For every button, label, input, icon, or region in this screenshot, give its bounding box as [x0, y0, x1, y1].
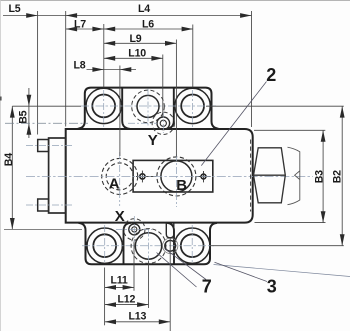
bottom cavity vertical centerline: [148, 230, 150, 262]
indicator circle right: [201, 174, 206, 179]
svg-text:L12: L12: [118, 293, 136, 305]
dimension B2 line: [341, 106, 343, 246]
extension line L4 right: [251, 11, 253, 127]
extension line port B center: [175, 40, 177, 157]
arrow bowtie L6 left: [104, 27, 115, 32]
top right boss inner edge: [166, 88, 174, 129]
port B solid circle: [161, 161, 192, 192]
port A dashed circle outer: [102, 158, 138, 194]
extension line port X: [133, 242, 135, 291]
left plug bottom stub: [38, 199, 49, 211]
port B vertical centerline: [175, 154, 177, 207]
arrow bowtie L7 right: [92, 27, 103, 32]
svg-text:L13: L13: [129, 311, 147, 323]
svg-text:B5: B5: [18, 110, 30, 123]
arrow L8 right outside: [120, 67, 131, 72]
port X horizontal centerline left: [4, 228, 82, 230]
callout 7 leader a: [165, 249, 207, 280]
port X small hole inner: [132, 227, 137, 232]
port Y cavity solid circle: [137, 95, 159, 117]
arrow L12 right: [137, 302, 148, 307]
svg-text:2: 2: [266, 65, 276, 85]
svg-text:A: A: [109, 176, 120, 193]
svg-text:L6: L6: [142, 19, 154, 31]
arrow B2 bottom: [340, 234, 345, 245]
left plug body: [49, 138, 66, 213]
dimension L12 line: [105, 304, 149, 306]
extension line body left edge: [65, 11, 67, 127]
extension line bolt left center: [103, 24, 105, 87]
main body outline: [66, 129, 253, 223]
arrow B4 top: [10, 106, 15, 117]
indicator circle right tick: [203, 171, 205, 182]
arrow L7 left: [66, 27, 77, 32]
extension line bottom cavity: [148, 261, 150, 308]
extension line right bolt bottom centerline: [211, 245, 344, 247]
top stub centerline: [26, 145, 72, 147]
svg-text:L8: L8: [74, 59, 86, 71]
top left boss inner edge: [122, 88, 130, 129]
dimension L9 line: [104, 42, 177, 44]
svg-text:L5: L5: [9, 3, 21, 15]
dimension L4-L5 line: [3, 15, 252, 17]
bolt top-right vertical centerline: [192, 90, 194, 127]
arrow L13 left: [105, 319, 116, 324]
scan edge artifact top: [0, 0, 350, 2]
extension line bolt right center: [192, 25, 194, 88]
scan edge artifact left: [0, 0, 1, 331]
bottom small hole circle: [165, 240, 176, 251]
dimension B4 line: [11, 106, 13, 229]
extension line right bolt top centerline: [206, 105, 344, 107]
port B dashed circle: [157, 157, 196, 196]
svg-text:B: B: [176, 177, 187, 194]
left plug top stub: [38, 140, 49, 152]
arrow B5 top outside: [27, 95, 32, 106]
dimension L13 line: [105, 321, 171, 323]
port Y small hole inner: [160, 120, 166, 126]
port Y small hole outer: [157, 117, 170, 130]
dimension L11 line: [105, 286, 134, 288]
arrow L9 right: [165, 41, 176, 46]
port X vertical centerline: [133, 216, 135, 242]
bottom right boss inner edge: [167, 223, 175, 264]
svg-text:Y: Y: [148, 132, 158, 149]
bottom mounting flange outline: [79, 223, 218, 264]
bolt hole bottom-left: [87, 228, 122, 263]
bottom stub centerline: [26, 204, 72, 206]
port Y cavity dashed circle: [132, 90, 165, 123]
arrow B4 bottom: [10, 218, 15, 229]
scan mark left edge: [0, 97, 2, 101]
callout 7 leader b: [157, 253, 197, 288]
port X small hole outer: [129, 224, 140, 235]
arrow L12 left: [105, 302, 116, 307]
svg-text:B3: B3: [313, 170, 325, 183]
extension line left bolt centerline: [12, 105, 81, 107]
indicator circle left tick: [141, 171, 143, 183]
callout 3 leader: [215, 262, 268, 281]
port A vertical centerline: [119, 152, 121, 206]
port X horizontal centerline window: [116, 228, 152, 230]
dimension L10 line: [104, 57, 163, 59]
arrow L4 left: [66, 13, 77, 18]
arrow L11 left: [105, 285, 116, 290]
extension line body bottom right: [255, 222, 326, 224]
top mounting flange outline: [78, 88, 219, 129]
svg-text:X: X: [115, 208, 125, 225]
bolt hole top-right: [175, 88, 210, 123]
bottom lugs horizontal centerline: [82, 245, 214, 247]
bolt top-left vertical centerline: [103, 90, 105, 127]
svg-text:3: 3: [267, 277, 277, 297]
arrow B3 top: [321, 130, 326, 141]
arrow L4 right: [240, 13, 251, 18]
svg-text:L4: L4: [138, 3, 150, 15]
hex fitting hidden edge dashed: [250, 140, 252, 212]
callout 2 leader: [201, 82, 266, 166]
port Y small hole dashed circle: [152, 112, 174, 134]
svg-text:L11: L11: [111, 275, 128, 287]
arrow L8 left outside: [92, 67, 103, 72]
bottom cavity solid circle: [135, 233, 161, 259]
arrow B2 top: [340, 106, 345, 117]
arrow B5 bottom outside: [27, 123, 32, 134]
extension line stub face: [37, 11, 39, 135]
extension line body top right: [254, 129, 325, 131]
hex fitting body: [254, 148, 286, 203]
bolt bottom-right vertical centerline: [191, 225, 193, 262]
spool pocket rectangle: [133, 160, 213, 192]
extension line port A center: [119, 66, 121, 157]
extension line Y small hole: [162, 55, 164, 118]
dimension B3 line: [322, 130, 324, 222]
dimension L7-L6 line: [66, 28, 193, 30]
port Y small hole vertical centerline: [162, 112, 164, 133]
arrow L11 right: [123, 285, 134, 290]
indicator circle left: [140, 174, 145, 179]
svg-text:7: 7: [202, 277, 212, 297]
port A dashed circle inner: [106, 163, 133, 190]
dimension L8 line: [87, 69, 137, 71]
extension line bottom small hole: [169, 238, 171, 331]
arrow L10 right: [151, 56, 162, 61]
top lugs horizontal centerline: [81, 105, 216, 107]
svg-text:L10: L10: [128, 47, 146, 59]
svg-text:B4: B4: [3, 153, 15, 166]
svg-text:B2: B2: [332, 170, 344, 183]
extension line Y hole centerline left: [5, 122, 88, 124]
bolt bottom-left vertical centerline: [104, 225, 106, 262]
port Y cavity vertical centerline: [147, 89, 149, 127]
bottom cavity dashed circle: [131, 229, 166, 264]
bolt hole bottom-right: [175, 228, 210, 263]
arrow L10 left: [104, 56, 115, 61]
bottom left boss inner edge: [124, 223, 132, 264]
dimension B5 line: [28, 88, 30, 138]
extension line bottom bolt left: [104, 268, 106, 326]
svg-text:L9: L9: [130, 33, 142, 45]
thin line lug corner to right edge: [214, 265, 350, 277]
arrow L6 right: [182, 27, 193, 32]
arrow B3 bottom: [321, 211, 326, 222]
port X small hole dashed circle: [124, 219, 145, 240]
fitting end cap: [288, 147, 300, 205]
port Y small hole horizontal centerline: [128, 122, 157, 124]
arrow L5 left: [26, 13, 37, 18]
arrow L13 right: [159, 319, 170, 324]
bolt hole top-left: [86, 88, 121, 123]
arrow L9 left: [104, 41, 115, 46]
bottom tab slot: [166, 223, 174, 238]
bottom small hole outer circle: [163, 238, 178, 253]
main horizontal centerline: [26, 175, 313, 177]
